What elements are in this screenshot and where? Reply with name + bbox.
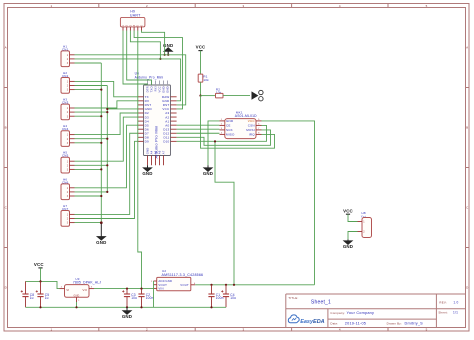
svg-text:GND: GND bbox=[162, 86, 166, 93]
svg-text:A5: A5 bbox=[154, 150, 158, 154]
wire H1 pin2 to U6 GND right bbox=[75, 59, 181, 101]
wire H5 pin1 to U6 D3 bbox=[75, 117, 139, 161]
power flag VCC top bbox=[196, 45, 206, 75]
node dots VCC rail bbox=[39, 280, 41, 282]
wire H5 pin3 to GND bus bbox=[75, 168, 102, 170]
wire H3 pin2 to VCC bus bbox=[75, 111, 108, 113]
connector H2 CN2 bbox=[61, 71, 75, 93]
wire bottom ground rail bbox=[26, 306, 227, 308]
U6 bottom pins GND A4-A7 bbox=[146, 148, 166, 166]
U6 left pins TX RX RST GND D2-D9 bbox=[138, 95, 153, 144]
ground GND below MK1 bbox=[203, 165, 213, 176]
wire VCC vertical bus bbox=[106, 86, 108, 192]
connector H5 CN5 bbox=[61, 151, 75, 173]
wire H6 pin2 to VCC bus bbox=[75, 191, 108, 193]
capacitor C3 10u bbox=[122, 289, 137, 308]
svg-text:RXI: RXI bbox=[154, 86, 158, 91]
svg-text:VI: VI bbox=[66, 288, 69, 292]
capacitor C8 1u bbox=[21, 281, 35, 307]
MK1 right pins VCC CSN MOSI IRQ bbox=[246, 119, 261, 137]
ground GND power rail bbox=[122, 307, 132, 319]
svg-text:TXO: TXO bbox=[150, 86, 154, 92]
node dots mid rail bbox=[126, 288, 128, 290]
svg-text:SCK: SCK bbox=[226, 128, 233, 132]
wire H1 pin3 to GND bus bbox=[75, 62, 102, 64]
svg-text:Sheet_1: Sheet_1 bbox=[311, 300, 331, 306]
node dots 3V3 rail bbox=[210, 284, 212, 286]
resistor R2 10k bbox=[216, 87, 224, 98]
wire UART pin5 long rail down to regulator input bbox=[138, 31, 142, 289]
title block bbox=[286, 294, 466, 328]
svg-text:4: 4 bbox=[339, 328, 341, 332]
svg-text:Sheet:: Sheet: bbox=[438, 311, 448, 315]
svg-text:TITLE:: TITLE: bbox=[288, 296, 298, 300]
svg-text:1u: 1u bbox=[30, 296, 34, 300]
wire U6 A0 to MK1 CE bbox=[177, 124, 220, 126]
ground GND below H8 bbox=[343, 239, 353, 249]
capacitor C2 100n bbox=[138, 289, 153, 308]
connector H1 CN1 bbox=[61, 44, 75, 66]
wire 3V3 output rail bbox=[195, 284, 314, 286]
wire H2 pin1 to U6 TX bbox=[75, 81, 139, 96]
wire VCC rail bbox=[26, 281, 60, 288]
svg-text:GND: GND bbox=[146, 148, 150, 155]
svg-text:4: 4 bbox=[339, 4, 341, 8]
U6 top pins bbox=[146, 81, 170, 93]
ground GND top flag bbox=[163, 43, 173, 55]
wire U6 D11 to MK1 MOSI loop bbox=[177, 130, 271, 145]
node dots near GND flag bbox=[164, 54, 166, 56]
wire U6 GND left to bus bbox=[107, 108, 138, 110]
svg-text:A6: A6 bbox=[158, 150, 162, 154]
svg-text:VCC: VCC bbox=[196, 45, 206, 50]
wire UART pin1 to U6 top pin bbox=[123, 31, 148, 86]
wire U6 D12 to MK1 MISO bbox=[177, 132, 220, 134]
node dots bottom rail bbox=[39, 306, 41, 308]
svg-text:AMS1117-3.3_C428566: AMS1117-3.3_C428566 bbox=[162, 273, 204, 277]
wire H5 pin2 to VCC bus bbox=[75, 164, 108, 166]
regulator U2 AMS1117-3.3_C428566 bbox=[151, 269, 203, 291]
svg-text:2: 2 bbox=[146, 4, 148, 8]
wire UART pin3 to GND net row B bbox=[130, 31, 160, 59]
wire U2 ADJ/GND to bottom rail bbox=[153, 281, 155, 307]
svg-text:D10: D10 bbox=[163, 140, 169, 144]
svg-text:IRQ: IRQ bbox=[249, 133, 255, 137]
wire GND vertical bus bbox=[100, 63, 102, 223]
svg-text:GND: GND bbox=[74, 295, 80, 298]
wire VCC to H8 pin1 bbox=[348, 214, 358, 221]
svg-text:5: 5 bbox=[426, 4, 428, 8]
wire R junction to MK1 IRQ loop bbox=[201, 96, 275, 149]
wire H7 pin3 to GND bus bbox=[75, 222, 102, 224]
transceiver module MK1 AS01-ML01D bbox=[225, 111, 257, 139]
wire H8 pin2 to GND bbox=[348, 232, 358, 240]
svg-text:Date:: Date: bbox=[330, 321, 338, 325]
wire U6 D13 to MK1 SCK bbox=[177, 128, 220, 130]
svg-text:A4: A4 bbox=[150, 150, 154, 154]
connector H7 CN7 bbox=[61, 204, 75, 226]
capacitor C5 1u bbox=[36, 281, 50, 307]
svg-text:GND: GND bbox=[142, 171, 152, 176]
svg-text:100n: 100n bbox=[216, 296, 224, 300]
power flag VCC bottom bbox=[34, 262, 44, 281]
svg-text:D9: D9 bbox=[145, 140, 149, 144]
wire H6 pin1 to U6 D5 bbox=[75, 125, 139, 188]
regulator U3 7805_DPAK_ALJ bbox=[60, 277, 102, 302]
power flag VCC for H8 bbox=[343, 209, 353, 215]
svg-text:GND: GND bbox=[226, 119, 234, 123]
svg-text:Your Company: Your Company bbox=[347, 311, 375, 315]
svg-text:VCC: VCC bbox=[343, 209, 353, 214]
capacitor C1 100n bbox=[208, 285, 223, 308]
svg-text:VCC: VCC bbox=[248, 119, 256, 123]
svg-text:MOSI: MOSI bbox=[246, 128, 255, 132]
connector H4 CN4 bbox=[61, 124, 75, 146]
svg-text:CSN: CSN bbox=[248, 124, 255, 128]
EasyEDA logo bbox=[288, 315, 324, 325]
capacitor C4 10u bbox=[221, 285, 236, 308]
svg-text:CE: CE bbox=[226, 124, 231, 128]
MK1 left pins GND CE SCK MISO bbox=[220, 119, 235, 137]
wire UART pin4 to U6 VCC pin loop bbox=[134, 31, 182, 109]
wire junction to R2 bbox=[201, 95, 216, 97]
wire R1 bottom to junction bbox=[200, 82, 202, 96]
svg-text:2: 2 bbox=[146, 328, 148, 332]
wire GND flag stem to row bbox=[167, 51, 169, 54]
wire H4 pin2 to VCC bus bbox=[75, 138, 108, 140]
svg-text:1: 1 bbox=[50, 4, 52, 8]
resistor R1 10k bbox=[198, 74, 209, 82]
wire H1 pin1 to U6 RST via right loop bbox=[75, 55, 186, 105]
connector H8 Yct bbox=[358, 211, 372, 238]
wire H4 pin1 to U6 D2 bbox=[75, 113, 139, 135]
svg-text:VOUT: VOUT bbox=[180, 283, 189, 287]
svg-text:5: 5 bbox=[426, 328, 428, 332]
ground GND bus bottom bbox=[96, 223, 106, 245]
wire H3 pin1 to U6 RX bbox=[75, 101, 139, 108]
node dot branch bbox=[214, 140, 216, 142]
svg-text:10u: 10u bbox=[230, 296, 236, 300]
svg-text:1u: 1u bbox=[45, 296, 49, 300]
svg-text:B: B bbox=[466, 126, 468, 130]
svg-text:B: B bbox=[5, 126, 7, 130]
connector H9 UART bbox=[120, 9, 144, 27]
svg-text:100n: 100n bbox=[146, 296, 154, 300]
U6 right pins RAW GND RST VCC A3-A0 D13-D10 bbox=[162, 95, 177, 144]
svg-text:Drawn By:: Drawn By: bbox=[387, 321, 402, 325]
svg-text:3: 3 bbox=[242, 4, 244, 8]
bus junction dots bbox=[106, 108, 108, 110]
wire H7 pin1 to U6 D7 bbox=[75, 133, 139, 214]
svg-text:A: A bbox=[466, 46, 468, 50]
svg-text:GND: GND bbox=[96, 240, 106, 245]
svg-text:UART: UART bbox=[130, 13, 141, 17]
svg-text:2019-11-05: 2019-11-05 bbox=[345, 322, 366, 326]
wire U6 D10 to MK1 CSN loop bbox=[177, 125, 267, 141]
svg-text:1: 1 bbox=[50, 328, 52, 332]
svg-text:GND: GND bbox=[122, 314, 132, 319]
svg-text:REV:: REV: bbox=[439, 300, 447, 304]
wire MK1 GND pin to ground bbox=[208, 121, 220, 165]
wire H2 pin2 to VCC bus bbox=[75, 85, 108, 87]
svg-text:DTR: DTR bbox=[146, 86, 150, 92]
svg-text:VIN: VIN bbox=[158, 287, 163, 291]
svg-text:Dmitriy_S: Dmitriy_S bbox=[405, 322, 424, 326]
svg-text:10k: 10k bbox=[203, 78, 209, 82]
svg-text:Company:: Company: bbox=[330, 311, 345, 315]
svg-text:1.0: 1.0 bbox=[453, 300, 458, 304]
ground GND below U6 bbox=[142, 165, 152, 176]
wire H2 pin3 to GND bus bbox=[75, 89, 102, 91]
H9 pin stubs 1-6 bbox=[123, 24, 143, 30]
wire U3 output rail to U2 input bbox=[94, 288, 154, 290]
svg-text:VCC: VCC bbox=[34, 262, 44, 267]
svg-text:7805_DPAK_ALJ: 7805_DPAK_ALJ bbox=[73, 281, 101, 285]
wire UART pin2 to U6 top pin bbox=[127, 31, 152, 86]
svg-text:10u: 10u bbox=[131, 296, 137, 300]
svg-text:VO: VO bbox=[82, 288, 87, 292]
svg-text:A7: A7 bbox=[162, 150, 166, 154]
wire MK1 VCC to 3V3 rail bbox=[262, 121, 315, 285]
wire R2 to buzzer bbox=[223, 95, 250, 97]
svg-text:A: A bbox=[5, 46, 7, 50]
buzzer LS1 bbox=[252, 90, 264, 101]
svg-text:AS01-ML01D: AS01-ML01D bbox=[235, 114, 257, 118]
svg-text:Arduino_Pro_Mini: Arduino_Pro_Mini bbox=[135, 76, 164, 80]
svg-text:3: 3 bbox=[242, 328, 244, 332]
svg-text:GND: GND bbox=[203, 171, 213, 176]
svg-text:EasyEDA: EasyEDA bbox=[300, 319, 324, 325]
wire U3 GND to bottom rail bbox=[76, 302, 78, 307]
wire module branch down to 3V3 rail bbox=[215, 141, 234, 284]
wire H7 pin2 to U6 D9 bbox=[75, 141, 139, 218]
wire H6 pin3 to GND bus bbox=[75, 195, 102, 197]
svg-text:VCC: VCC bbox=[158, 86, 162, 92]
wire UART pin6 to GND net row A bbox=[142, 31, 165, 55]
svg-text:GND: GND bbox=[166, 86, 170, 93]
svg-text:1/1: 1/1 bbox=[453, 311, 458, 315]
svg-text:MISO: MISO bbox=[226, 133, 235, 137]
wire H3 pin3 to GND bus bbox=[75, 115, 102, 117]
connector H3 CN3 bbox=[61, 98, 75, 120]
node junction R1-R2 bbox=[199, 95, 201, 97]
IC U6 Arduino Pro Mini bbox=[135, 71, 171, 158]
connector H6 CN6 bbox=[61, 177, 75, 199]
node dot GND bus bottom bbox=[100, 221, 103, 224]
svg-text:GND: GND bbox=[343, 244, 353, 249]
wire H4 pin3 to GND bus bbox=[75, 142, 102, 144]
